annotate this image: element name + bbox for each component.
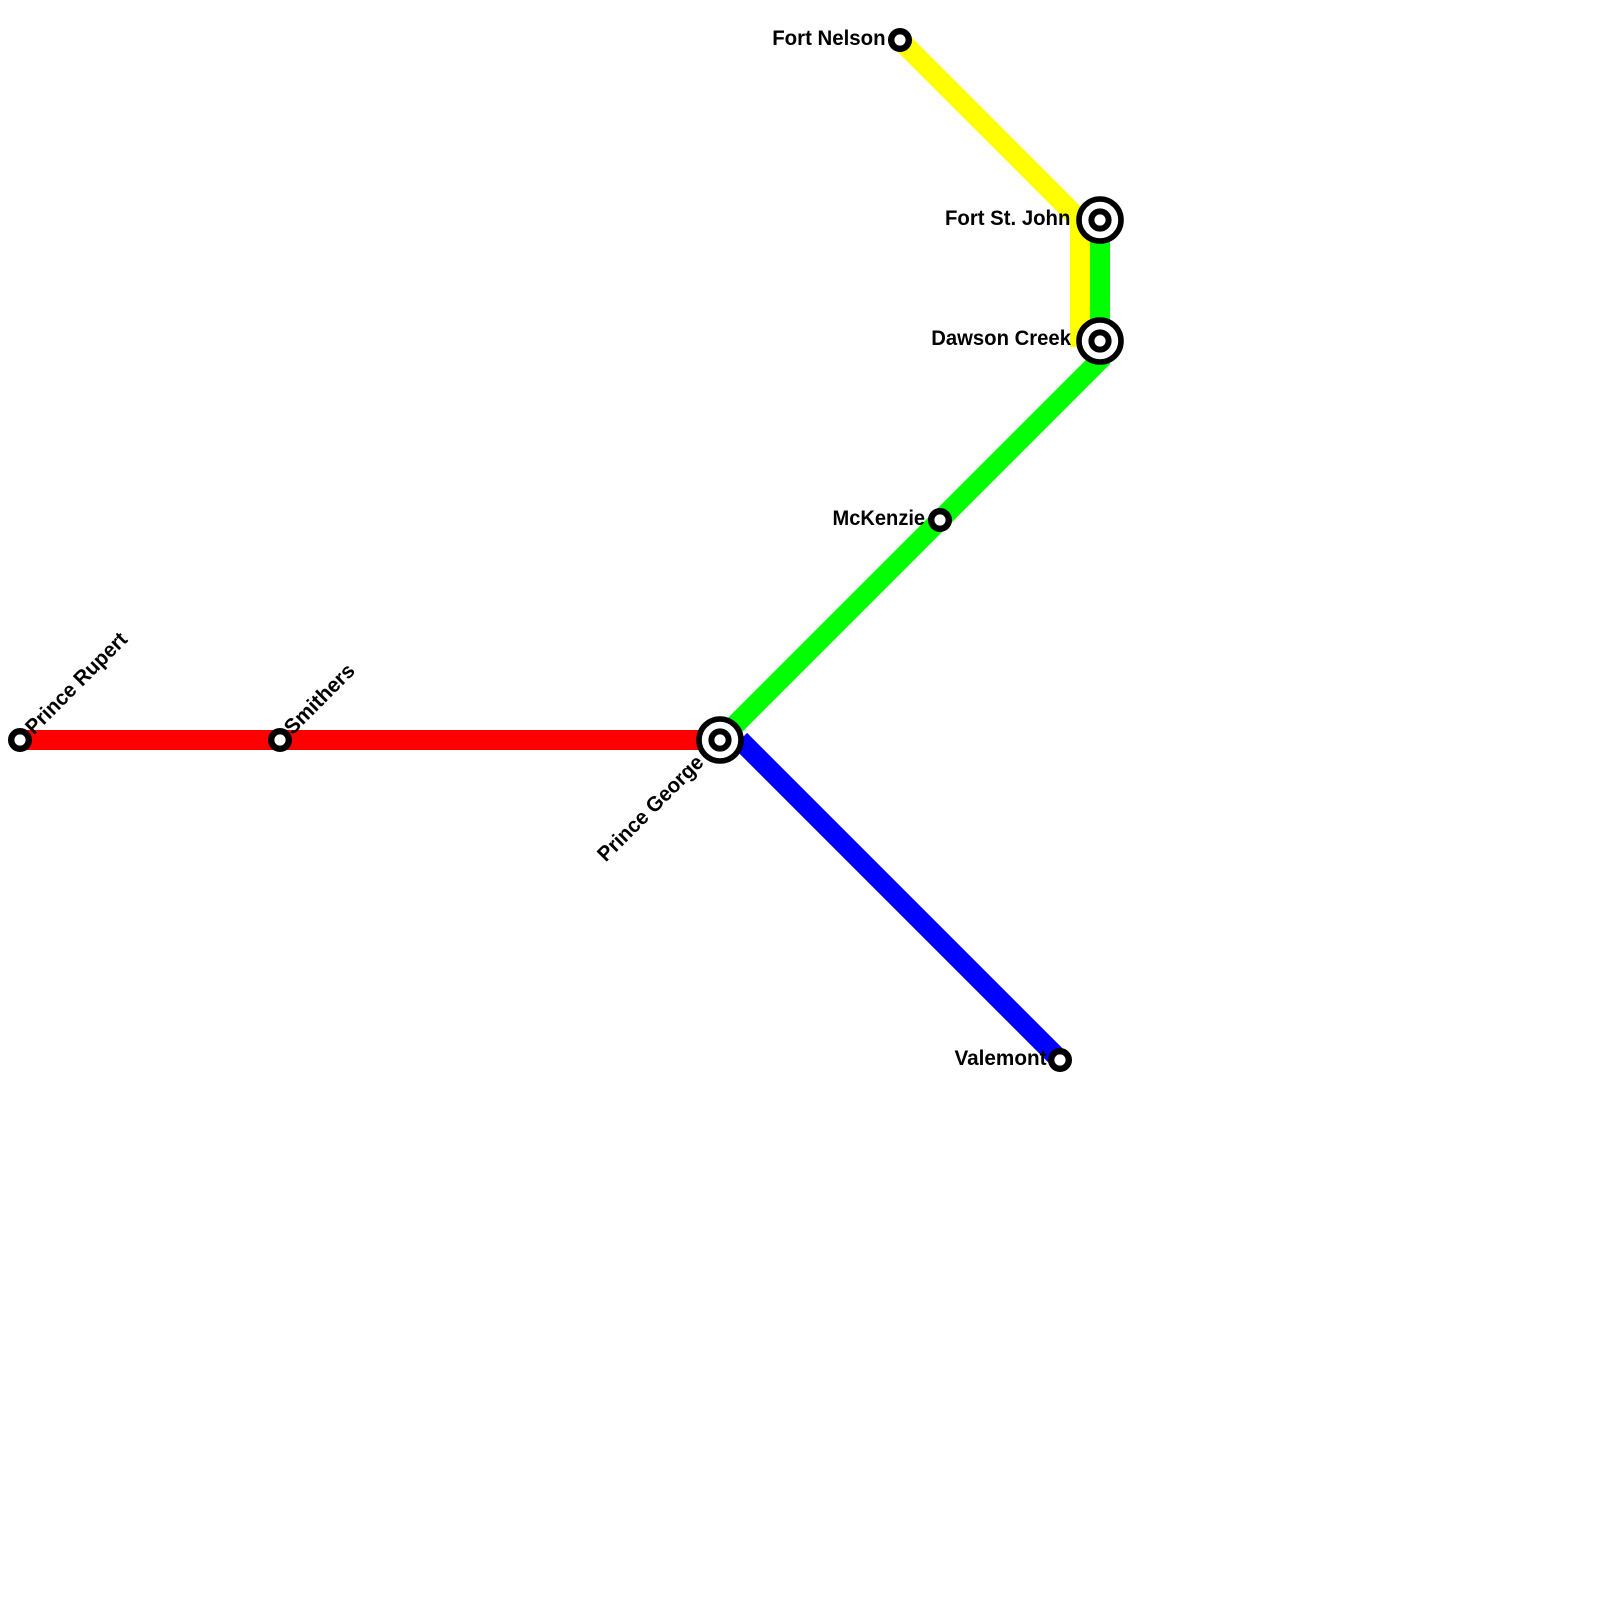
station Smithers (271, 731, 289, 749)
station McKenzie (931, 511, 949, 529)
station Fort Nelson (891, 31, 909, 49)
yellow line Fort Nelson to Dawson Creek (900, 40, 1080, 347)
svg-text:Fort Nelson: Fort Nelson (772, 27, 885, 50)
green line Fort St. John to Prince George (720, 220, 1100, 740)
station Valemont (1051, 1051, 1069, 1069)
station Prince Rupert (11, 731, 29, 749)
interchange Fort St. John (1079, 199, 1121, 241)
blue line Prince George to Valemont (740, 740, 1060, 1060)
interchange Prince George (699, 719, 741, 761)
interchange Dawson Creek (1079, 320, 1121, 362)
red line Prince Rupert to Prince George (20, 730, 720, 750)
svg-text:McKenzie: McKenzie (833, 507, 926, 530)
svg-text:Fort St. John: Fort St. John (945, 207, 1070, 230)
svg-text:Dawson Creek: Dawson Creek (931, 327, 1071, 350)
svg-text:Valemont: Valemont (955, 1047, 1047, 1070)
